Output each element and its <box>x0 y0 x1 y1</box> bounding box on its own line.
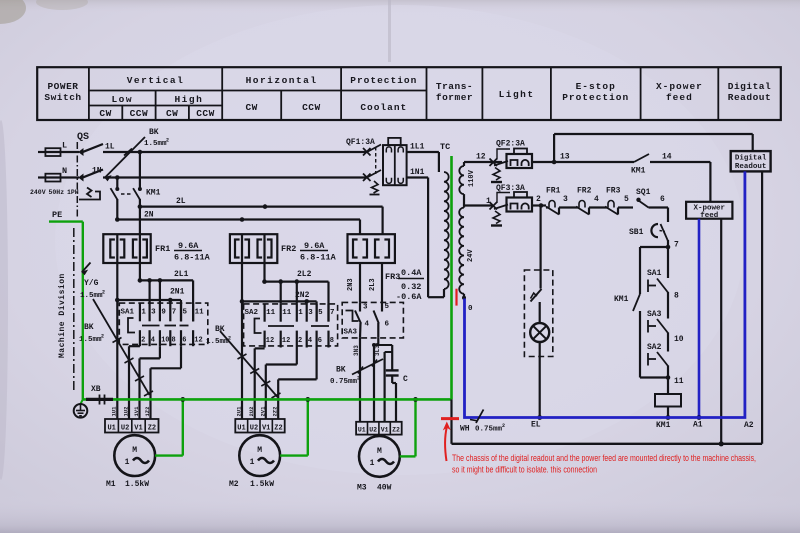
svg-text:2L3: 2L3 <box>369 278 377 291</box>
contact KM1 (readout feed) <box>554 153 710 176</box>
svg-text:240V: 240V <box>30 189 46 196</box>
wire 2N2 <box>240 263 317 322</box>
svg-text:0: 0 <box>468 305 473 313</box>
svg-text:1: 1 <box>298 309 303 317</box>
svg-text:1.5mm: 1.5mm <box>144 140 167 148</box>
svg-text:1U1: 1U1 <box>111 406 118 417</box>
svg-text:0.75mm: 0.75mm <box>475 426 503 434</box>
transformer secondary 110V <box>459 162 476 208</box>
svg-text:-0.6A: -0.6A <box>396 292 422 302</box>
svg-text:V1: V1 <box>262 424 270 432</box>
fuse L <box>38 151 45 153</box>
svg-text:3: 3 <box>363 304 368 312</box>
svg-text:Horizontal: Horizontal <box>246 75 318 86</box>
switch SQ1 <box>636 188 668 208</box>
svg-text:5: 5 <box>318 309 323 317</box>
svg-text:M: M <box>132 446 137 455</box>
bus labels <box>693 421 754 431</box>
svg-text:QF1:3A: QF1:3A <box>346 138 375 147</box>
svg-text:12: 12 <box>194 337 202 345</box>
svg-text:1U2: 1U2 <box>123 407 130 417</box>
lamp fixture box <box>524 270 552 357</box>
svg-text:2: 2 <box>101 334 104 340</box>
svg-text:4: 4 <box>308 337 312 345</box>
svg-text:U1: U1 <box>358 427 366 434</box>
svg-text:L: L <box>62 141 67 151</box>
overload relay FR3 <box>348 207 395 303</box>
svg-text:KM1: KM1 <box>146 189 161 198</box>
capacitor C tap <box>372 343 392 422</box>
svg-text:11: 11 <box>195 309 205 317</box>
contact FR2 (NC) <box>576 187 592 215</box>
svg-text:2L2: 2L2 <box>297 270 312 279</box>
svg-text:1: 1 <box>125 458 130 467</box>
cable marker BK 1.5mm2 (M1) <box>79 299 153 396</box>
svg-text:SB1: SB1 <box>629 228 644 237</box>
transformer TC primary winding <box>444 172 449 297</box>
svg-text:4: 4 <box>151 337 155 345</box>
node 13 <box>552 153 570 165</box>
svg-text:50Hz: 50Hz <box>49 189 65 196</box>
transformer secondary 24V <box>459 208 475 299</box>
contact SA1 (control) <box>647 247 668 293</box>
svg-text:1L1: 1L1 <box>410 143 425 152</box>
svg-text:3: 3 <box>308 309 313 317</box>
contact FR3 (NC) <box>605 187 621 215</box>
PE wire <box>49 210 83 399</box>
svg-text:1.5kW: 1.5kW <box>125 480 149 489</box>
svg-text:40W: 40W <box>377 484 392 493</box>
contact FR1 (NC) <box>546 187 561 215</box>
svg-text:feed: feed <box>700 212 718 220</box>
svg-text:12: 12 <box>282 337 290 345</box>
svg-text:2Z2: 2Z2 <box>272 407 279 417</box>
node 1N bus <box>103 176 367 178</box>
svg-text:2: 2 <box>502 423 505 429</box>
SA2 labels <box>245 309 335 345</box>
switch SA3 <box>342 302 403 338</box>
function table <box>37 67 781 120</box>
svg-text:1Z2: 1Z2 <box>144 407 151 417</box>
svg-text:2: 2 <box>102 290 105 296</box>
contact SA3 (control) <box>647 310 668 333</box>
svg-text:POWER: POWER <box>47 81 78 92</box>
svg-text:8: 8 <box>330 337 334 345</box>
svg-text:1.5mm: 1.5mm <box>206 338 229 346</box>
svg-text:6: 6 <box>318 337 322 345</box>
SA1 labels <box>121 309 205 345</box>
chassis link under earth bus <box>450 399 452 443</box>
svg-text:2: 2 <box>228 336 231 342</box>
svg-text:Trans-: Trans- <box>436 81 473 92</box>
svg-text:4: 4 <box>594 195 599 204</box>
chassis line <box>452 441 763 446</box>
svg-text:1V1: 1V1 <box>133 406 140 417</box>
svg-text:M1: M1 <box>106 480 116 489</box>
svg-text:5: 5 <box>385 303 390 311</box>
svg-text:3N3: 3N3 <box>353 345 360 356</box>
node 2 <box>539 203 544 208</box>
svg-text:The chassis of the digital rea: The chassis of the digital readout and t… <box>452 453 756 463</box>
svg-text:Readout: Readout <box>728 92 771 103</box>
svg-text:Switch: Switch <box>44 92 81 103</box>
svg-text:High: High <box>174 94 203 105</box>
overload relay FR1 <box>103 234 150 263</box>
SA2 pin stubs <box>265 279 329 347</box>
svg-text:9.6A: 9.6A <box>178 241 199 251</box>
contactor KM1 main contacts <box>111 150 161 235</box>
connector XB <box>86 385 113 405</box>
node 8 <box>668 292 679 319</box>
svg-text:BK: BK <box>149 128 159 137</box>
wire 1L1 <box>407 143 439 173</box>
svg-text:M2: M2 <box>229 480 239 489</box>
svg-text:0.4A: 0.4A <box>401 268 422 278</box>
node 10 <box>668 333 684 352</box>
svg-text:XB: XB <box>91 385 101 394</box>
wire 13 to digital readout (top bus) <box>554 134 753 162</box>
svg-text:7: 7 <box>330 309 335 317</box>
transformer screen (green) <box>450 156 453 399</box>
wire 12 <box>464 153 502 163</box>
svg-text:9.6A: 9.6A <box>304 241 325 251</box>
SA2 internal contacts <box>255 319 330 334</box>
svg-text:C: C <box>403 375 408 384</box>
red isolation tick near transformer <box>455 289 457 306</box>
svg-text:4: 4 <box>365 321 370 329</box>
svg-text:KM1: KM1 <box>656 421 671 430</box>
svg-text:11: 11 <box>282 309 292 317</box>
wire 2N <box>117 218 360 220</box>
svg-text:PE: PE <box>52 210 62 220</box>
svg-text:12: 12 <box>266 337 274 345</box>
svg-text:Light: Light <box>499 89 535 100</box>
svg-text:U2: U2 <box>369 427 377 434</box>
coil KM1 <box>655 394 681 430</box>
svg-text:11: 11 <box>266 309 276 317</box>
svg-text:A2: A2 <box>744 421 754 430</box>
svg-text:QF2:3A: QF2:3A <box>496 140 525 149</box>
M1 terminal box <box>105 419 159 433</box>
wire 2L1 <box>138 263 194 322</box>
svg-text:0.75mm: 0.75mm <box>330 378 358 386</box>
svg-text:Low: Low <box>111 94 133 105</box>
lamp EL <box>530 323 549 430</box>
switch SA2 (cam switch block) <box>244 304 338 346</box>
svg-text:6.8-11A: 6.8-11A <box>174 253 211 263</box>
svg-text:12: 12 <box>476 153 486 162</box>
node 11 <box>666 366 684 395</box>
svg-text:24V: 24V <box>467 249 475 262</box>
svg-text:1.5mm: 1.5mm <box>80 292 103 300</box>
svg-text:Machine Division: Machine Division <box>58 273 67 358</box>
wire 6 down <box>667 208 669 223</box>
svg-text:13: 13 <box>560 153 570 162</box>
svg-text:2: 2 <box>141 337 145 345</box>
svg-text:A1: A1 <box>693 421 703 430</box>
svg-text:FR3: FR3 <box>606 187 621 196</box>
blue 0V bus <box>465 171 745 417</box>
cable marker BK 0.75mm2 (M3) <box>330 359 383 386</box>
svg-text:10: 10 <box>161 337 169 345</box>
wire 1V1 <box>159 346 161 358</box>
X-power feed box <box>686 202 732 220</box>
svg-text:WH: WH <box>460 425 470 434</box>
svg-text:5: 5 <box>624 195 629 204</box>
wire 1N1 <box>407 168 444 297</box>
M3 earth wire <box>400 397 418 456</box>
SA1 internal contacts <box>128 318 189 333</box>
svg-text:Digital: Digital <box>735 155 767 163</box>
svg-text:so it might be difficult to is: so it might be difficult to isolate. thi… <box>452 465 597 475</box>
svg-text:2N: 2N <box>144 211 154 220</box>
breaker QF1:3A <box>346 138 407 195</box>
svg-text:Digital: Digital <box>728 81 771 92</box>
svg-text:Z2: Z2 <box>274 424 282 432</box>
svg-text:X-power: X-power <box>656 81 703 92</box>
svg-text:2L1: 2L1 <box>174 270 189 279</box>
svg-text:2: 2 <box>357 376 360 382</box>
svg-text:6.8-11A: 6.8-11A <box>300 253 337 263</box>
marker Y/G 1.5mm2 <box>80 263 105 301</box>
M2 earth wire <box>280 397 310 456</box>
svg-text:110V: 110V <box>468 169 476 187</box>
wire 2L <box>140 206 383 208</box>
wire A1 (blue) <box>698 219 701 418</box>
svg-text:9: 9 <box>161 309 166 317</box>
breaker QF2:3A <box>490 140 555 183</box>
svg-text:EL: EL <box>531 421 541 430</box>
svg-text:2V1: 2V1 <box>259 406 266 417</box>
M1 earth wire <box>155 397 185 456</box>
svg-text:2: 2 <box>298 337 302 345</box>
svg-text:1: 1 <box>141 309 146 317</box>
cable marker BK 1.5mm2 (M2) <box>206 325 281 398</box>
svg-text:Protection: Protection <box>350 75 417 86</box>
svg-text:3: 3 <box>151 309 156 317</box>
svg-text:Coolant: Coolant <box>360 102 407 113</box>
Digital Readout box <box>731 151 771 171</box>
M2 terminal labels <box>236 406 279 417</box>
wire 2U2 <box>255 347 265 349</box>
svg-text:former: former <box>436 92 473 103</box>
svg-text:5: 5 <box>183 309 188 317</box>
motor M1 <box>106 435 155 489</box>
wire 2L2 <box>262 263 328 322</box>
svg-text:10: 10 <box>674 335 684 344</box>
breaker QF3:3A <box>464 184 541 226</box>
wire 2Z2 <box>316 348 318 380</box>
FR2 value label <box>281 241 337 263</box>
KM1 holding branch <box>614 247 668 378</box>
svg-text:U1: U1 <box>107 424 115 432</box>
svg-text:SA3: SA3 <box>647 310 662 319</box>
node 7 <box>666 240 679 250</box>
svg-text:Z2: Z2 <box>148 424 156 432</box>
svg-text:SA2: SA2 <box>647 343 662 352</box>
motor M2 <box>229 435 280 489</box>
svg-text:U1: U1 <box>237 424 245 432</box>
svg-text:1.5kW: 1.5kW <box>250 480 274 489</box>
svg-text:0.32: 0.32 <box>401 282 421 292</box>
M2 terminal box <box>235 419 284 433</box>
svg-text:8: 8 <box>172 337 176 345</box>
svg-text:SA1: SA1 <box>121 309 135 317</box>
overload relay FR2 <box>230 234 277 263</box>
svg-text:FR2: FR2 <box>577 187 592 196</box>
switch QS <box>77 132 103 218</box>
svg-text:CW: CW <box>99 108 111 119</box>
lamp switch <box>531 270 542 324</box>
svg-text:7: 7 <box>674 241 679 250</box>
wire 2U1 <box>241 301 243 419</box>
svg-text:2N1: 2N1 <box>170 288 185 297</box>
svg-text:2U2: 2U2 <box>248 407 255 417</box>
FR3 value label <box>385 268 424 302</box>
SA1 pin stubs <box>140 278 193 346</box>
svg-text:14: 14 <box>662 153 672 162</box>
node 1L bus <box>103 151 367 153</box>
svg-text:Vertical: Vertical <box>127 75 185 86</box>
svg-text:1N1: 1N1 <box>410 168 425 177</box>
contact SA2 (control) <box>647 343 668 366</box>
red arrow <box>443 422 451 462</box>
pushbutton SB1 (E-stop) <box>629 224 668 241</box>
svg-text:Z2: Z2 <box>392 427 400 434</box>
wire 2N1 <box>115 263 185 322</box>
svg-text:M: M <box>377 447 382 456</box>
svg-text:TC: TC <box>440 142 450 152</box>
svg-text:2U1: 2U1 <box>236 406 243 417</box>
svg-text:2: 2 <box>536 195 541 204</box>
fuse N <box>38 176 45 178</box>
machine division boundary <box>58 228 74 391</box>
svg-text:FR1: FR1 <box>155 244 170 254</box>
wire 14 <box>709 162 711 202</box>
wire 2V1 <box>296 348 298 365</box>
svg-text:1L: 1L <box>105 143 115 152</box>
readout chassis wire <box>761 171 763 443</box>
svg-text:V1: V1 <box>381 427 389 434</box>
svg-text:FR3: FR3 <box>385 272 400 282</box>
M1 terminal labels <box>111 406 152 417</box>
cable marker BK 1.5mm2 (incoming) <box>105 128 169 181</box>
svg-text:CW: CW <box>166 108 178 119</box>
wire 1U2 <box>129 345 140 347</box>
lamp branch wire (node 2 down) <box>539 206 541 271</box>
svg-text:Y/G: Y/G <box>84 279 99 288</box>
svg-text:BK: BK <box>84 323 94 332</box>
svg-text:N: N <box>62 166 67 176</box>
svg-text:SA2: SA2 <box>245 309 259 317</box>
svg-text:U2: U2 <box>250 424 258 432</box>
earth terminal symbol <box>74 399 88 417</box>
earth bus (green) <box>83 398 452 401</box>
wire 3L3 <box>374 338 381 422</box>
svg-text:CCW: CCW <box>130 108 149 119</box>
svg-text:CCW: CCW <box>302 102 321 113</box>
svg-text:1N: 1N <box>92 167 102 176</box>
svg-text:V1: V1 <box>134 424 142 432</box>
svg-text:2L: 2L <box>176 197 186 206</box>
wire 1Z2 <box>180 346 182 368</box>
wire 3N3 <box>353 338 360 422</box>
svg-text:SA3: SA3 <box>344 329 358 337</box>
svg-text:M: M <box>257 446 262 455</box>
marker WH 0.75mm2 <box>460 410 505 434</box>
svg-text:FR1: FR1 <box>546 187 561 196</box>
svg-text:6: 6 <box>385 321 390 329</box>
svg-text:8: 8 <box>674 292 679 301</box>
FR1 value label <box>155 241 211 263</box>
svg-text:7: 7 <box>172 309 177 317</box>
svg-text:feed: feed <box>666 92 693 103</box>
X-power chassis wire <box>720 219 722 444</box>
svg-text:CW: CW <box>245 102 257 113</box>
svg-text:6: 6 <box>182 337 186 345</box>
switch SA1 (cam switch block) <box>119 303 208 344</box>
red annotation text <box>452 453 756 475</box>
svg-text:CCW: CCW <box>196 108 215 119</box>
node 0 <box>462 296 473 313</box>
svg-text:E-stop: E-stop <box>576 81 616 92</box>
svg-text:SQ1: SQ1 <box>636 188 651 197</box>
svg-text:SA1: SA1 <box>647 269 662 278</box>
svg-text:6: 6 <box>660 195 665 204</box>
svg-text:BK: BK <box>215 325 225 334</box>
svg-text:U2: U2 <box>121 424 129 432</box>
svg-text:BK: BK <box>336 366 346 375</box>
capacitor C <box>386 370 408 421</box>
svg-text:1: 1 <box>250 458 255 467</box>
svg-text:Protection: Protection <box>562 92 629 103</box>
M3 terminal box <box>356 422 402 435</box>
svg-text:2N3: 2N3 <box>347 278 355 291</box>
svg-text:KM1: KM1 <box>631 167 646 176</box>
motor M3 <box>357 436 400 493</box>
svg-text:FR2: FR2 <box>281 244 296 254</box>
svg-text:3: 3 <box>563 195 568 204</box>
svg-text:M3: M3 <box>357 484 367 493</box>
svg-text:1: 1 <box>370 459 375 468</box>
wire 1U1 <box>116 300 118 419</box>
svg-text:2: 2 <box>166 138 169 144</box>
red isolation bar <box>441 417 459 420</box>
svg-text:KM1: KM1 <box>614 295 629 304</box>
svg-text:Readout: Readout <box>735 163 767 171</box>
svg-text:QS: QS <box>77 132 89 143</box>
svg-text:11: 11 <box>674 377 684 386</box>
